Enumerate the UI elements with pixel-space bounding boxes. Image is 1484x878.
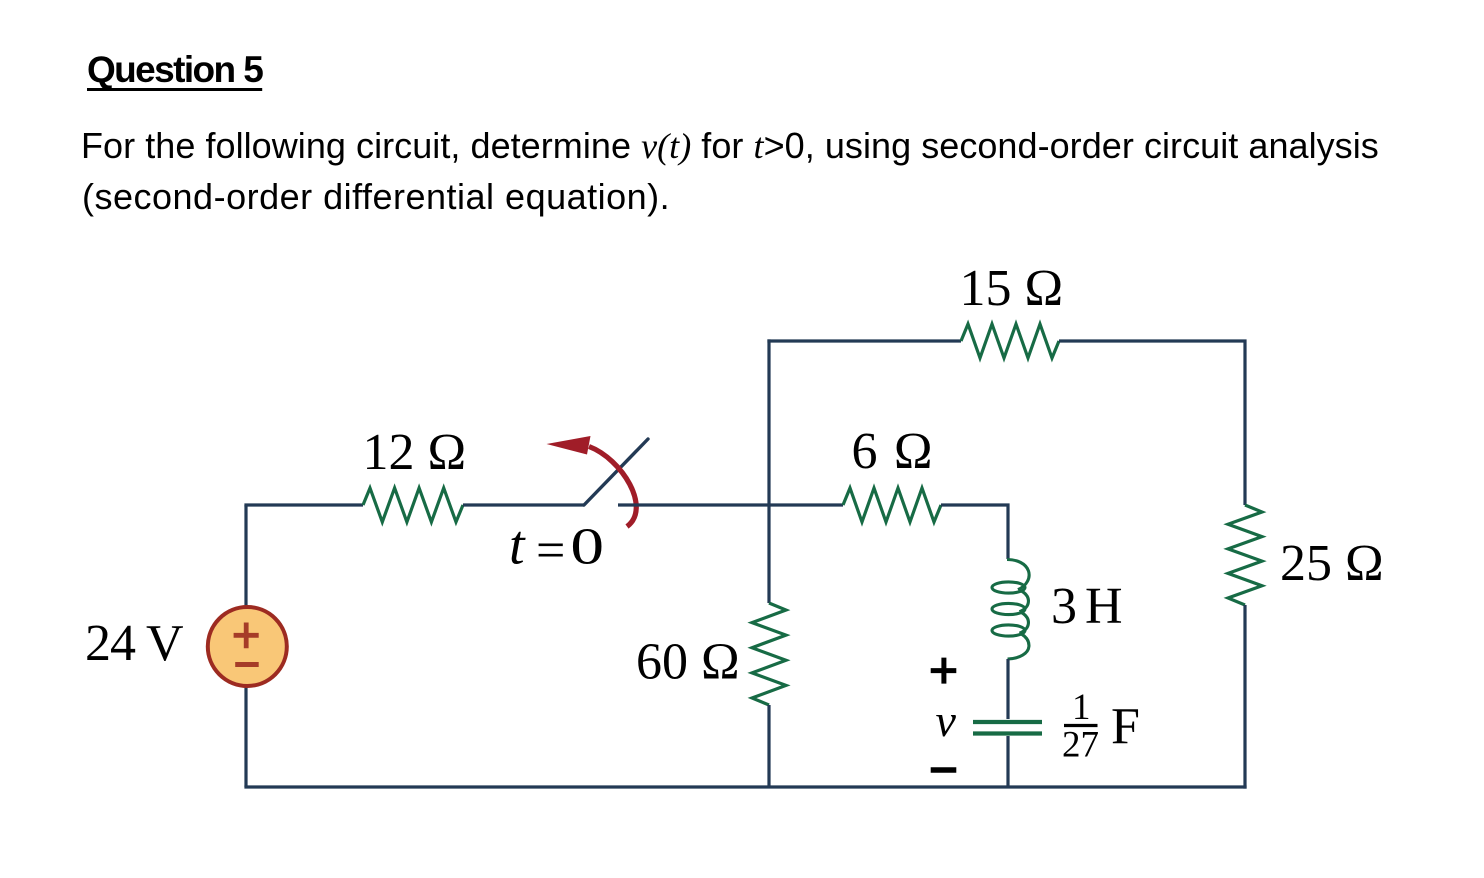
svg-text:v: v (936, 695, 957, 746)
svg-text:25 Ω: 25 Ω (1280, 535, 1384, 592)
wire: top rail right of 15-ohm, down right rail to 25-ohm (1059, 341, 1245, 505)
resistor R 15-ohm zigzag (961, 324, 1059, 358)
switch arrowhead (547, 436, 591, 455)
label minus polarity (931, 767, 957, 773)
capacitor C bottom plate (973, 731, 1042, 735)
inductor connector arc 2 (1020, 613, 1029, 634)
voltage source V circle (208, 607, 287, 686)
wire: mid rail from left corner to 12-ohm resistor (244, 503, 363, 506)
svg-text:60 Ω: 60 Ω (636, 634, 740, 691)
switch blade (open) (584, 439, 648, 505)
svg-text:6 Ω: 6 Ω (852, 423, 935, 480)
inductor L top hook (1007, 560, 1029, 590)
svg-text:=: = (536, 523, 565, 580)
resistor R 12-ohm zigzag (363, 488, 463, 522)
wire: 12-ohm to switch pivot (463, 503, 584, 506)
svg-text:0: 0 (570, 518, 604, 576)
wire: 25-ohm to bottom right corner (1243, 605, 1246, 789)
wire: inductor to capacitor (1006, 659, 1009, 719)
svg-text:27: 27 (1062, 725, 1099, 766)
inductor bottom hook (1008, 634, 1029, 659)
wire: left rail (source bottom to bottom rail) (244, 646, 247, 787)
wire: capacitor to bottom rail (1006, 736, 1009, 787)
inductor loop 2 (992, 603, 1025, 614)
resistor R 25-ohm zigzag (1228, 505, 1262, 605)
svg-text:12 Ω: 12 Ω (363, 424, 467, 481)
wire: bottom rail (244, 785, 1246, 788)
wire: 6-ohm to inductor branch corner (941, 503, 1010, 559)
svg-text:15 Ω: 15 Ω (960, 260, 1064, 317)
paragraph line 1 (81, 128, 1379, 164)
paragraph line 2 (82, 179, 670, 215)
capacitor C top plate (973, 720, 1042, 724)
heading: Question 5 (87, 51, 262, 88)
inductor connector arc 1 (1020, 591, 1029, 612)
wire: switch fixed contact to 6-ohm resistor (crosses 60-ohm branch) (618, 503, 843, 506)
wire: middle vertical branch (top rail junction down to 60-ohm) (767, 339, 770, 603)
resistor R 6-ohm zigzag (843, 488, 941, 522)
label plus polarity (931, 658, 957, 684)
voltage source minus sign (235, 662, 259, 667)
svg-text:3 H: 3 H (1051, 578, 1122, 635)
inductor loop 3 (992, 625, 1025, 636)
label capacitor value 1/27 F (1062, 687, 1140, 766)
voltage source plus sign (234, 623, 259, 649)
switch arc (red) (589, 447, 636, 527)
svg-text:F: F (1111, 698, 1140, 755)
wire: 60-ohm to bottom rail (767, 705, 770, 787)
wire: left rail (source top to mid rail corner) (244, 505, 247, 646)
resistor R 60-ohm zigzag (752, 603, 786, 705)
svg-text:24 V: 24 V (85, 615, 183, 672)
svg-text:t: t (509, 515, 526, 577)
svg-text:1: 1 (1072, 687, 1091, 728)
inductor loop 1 (992, 582, 1025, 593)
wire: top rail left of 15-ohm (767, 339, 961, 342)
